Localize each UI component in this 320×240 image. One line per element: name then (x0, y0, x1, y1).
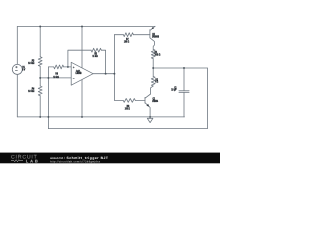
svg-text:100 Ω: 100 Ω (155, 53, 161, 57)
svg-text:100 Ω: 100 Ω (125, 106, 131, 110)
svg-text:LAB: LAB (26, 159, 40, 164)
svg-text:10 kΩ: 10 kΩ (53, 75, 59, 79)
svg-text:10 kΩ: 10 kΩ (28, 89, 35, 93)
svg-text:4 Ω: 4 Ω (155, 80, 158, 84)
svg-text:100 Ω: 100 Ω (124, 40, 130, 44)
svg-text:10 µF: 10 µF (171, 88, 177, 92)
svg-text:9 V: 9 V (22, 67, 25, 71)
svg-text:http://circuitlab.com/c/7249gw: http://circuitlab.com/c/7249gwjdxx (50, 160, 101, 163)
svg-text:10 kΩ: 10 kΩ (28, 61, 35, 65)
svg-text:11 kΩ: 11 kΩ (92, 54, 98, 58)
svg-text:2N3906: 2N3906 (152, 34, 159, 38)
svg-text:LM358: LM358 (76, 71, 82, 75)
svg-text:Schmitt_trigger BJT: Schmitt_trigger BJT (67, 156, 109, 160)
svg-text:aissa1234 /: aissa1234 / (50, 156, 65, 160)
svg-text:2N3904: 2N3904 (152, 99, 158, 103)
